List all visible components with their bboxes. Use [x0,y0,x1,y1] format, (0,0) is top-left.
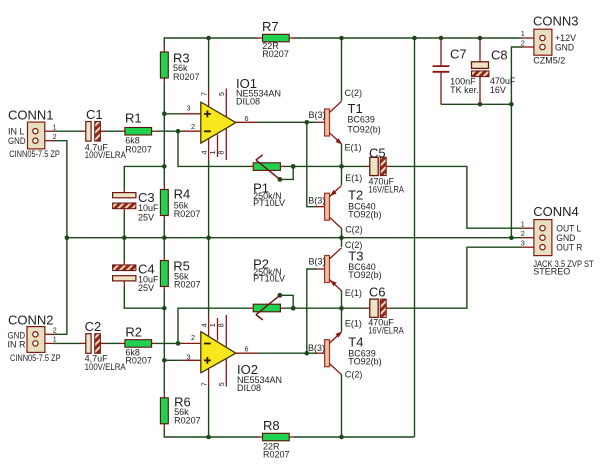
svg-text:2: 2 [53,132,57,141]
svg-text:16V: 16V [490,85,506,95]
svg-text:PT10LV: PT10LV [253,274,285,284]
resistor R7 [257,34,294,42]
svg-text:10uF: 10uF [138,203,159,213]
svg-text:T1: T1 [348,101,363,116]
svg-text:TO92(b): TO92(b) [348,270,381,280]
svg-text:CINN05-7.5 ZP: CINN05-7.5 ZP [9,149,60,159]
wire bottom +12V rail right segment [294,436,415,438]
value label T2 [308,173,381,234]
transistor T1 [316,101,342,144]
svg-text:STEREO: STEREO [533,267,570,277]
node top rail junctions [206,36,482,41]
svg-text:2: 2 [521,38,525,47]
node C7 C8 ground junctions [478,102,514,107]
node label CONN1 texts [8,108,60,160]
wire IO1 output to base node [257,121,307,123]
svg-text:R0207: R0207 [125,356,152,366]
svg-text:C7: C7 [450,47,467,62]
transistor T4 [316,331,342,374]
capacitor C2 polarized [81,334,105,354]
svg-text:1: 1 [53,335,57,344]
capacitor C7 ceramic [433,38,450,105]
value label R4 [174,187,201,219]
node label CONN2 texts [8,313,61,364]
svg-text:B(3): B(3) [309,110,326,120]
potentiometer P1 [249,155,285,180]
wire P1 right to C5 emitter row [284,165,366,167]
capacitor C1 polarized [81,122,105,142]
wire C6 to CONN4 OUT R [391,247,523,308]
resistor R5 [160,255,168,291]
node mid rail junctions [65,235,514,240]
svg-text:25V: 25V [138,283,154,293]
svg-text:4: 4 [200,151,209,155]
svg-text:GND: GND [556,233,575,243]
wire T1 collector to rail [341,38,343,101]
wire T4 emitter up [341,308,343,331]
potentiometer P2 [249,295,285,320]
svg-text:CONN1: CONN1 [8,108,54,123]
wire base node T1-T2 vertical [307,122,317,206]
svg-text:R0207: R0207 [125,144,152,154]
wire C4 bottom to bias row [124,285,164,308]
node label CONN3 texts [521,14,579,66]
svg-text:E(1): E(1) [345,142,362,152]
resistor R3 [160,46,168,84]
svg-text:C(2): C(2) [345,225,363,235]
svg-text:4: 4 [200,323,209,327]
svg-text:CZM5/2: CZM5/2 [533,55,565,65]
resistor R4 [160,184,168,220]
node bias chain junctions [162,112,167,363]
svg-text:1: 1 [521,29,525,38]
svg-text:CONN2: CONN2 [8,313,54,328]
svg-text:B(3): B(3) [308,196,325,206]
wire C7-C8 ground bar [441,103,511,105]
svg-text:8: 8 [217,151,226,155]
svg-text:3: 3 [521,238,525,247]
wire T3 collector to mid rail [341,238,343,247]
svg-text:T3: T3 [348,248,363,263]
value label R8 [263,418,290,460]
wire T4 collector to bottom rail [341,375,343,438]
wire R1 to IO1 pin2 [156,130,182,132]
wire base node to T4 [307,352,317,354]
svg-text:IN R: IN R [8,339,27,349]
svg-text:IN L: IN L [8,127,25,137]
node base junctions [305,120,310,356]
wire R3-R4 bias chain vertical [163,83,165,185]
wire CONN2 pin1 to C2 [54,342,82,344]
svg-text:1: 1 [521,219,525,228]
wire C4 top to mid rail [123,238,125,261]
capacitor C6 polarized [366,299,392,317]
wire IO2 pins 4-1-8 ground rise [208,238,210,316]
connector CONN2 [27,327,54,353]
wire base node to T1 [307,121,317,123]
svg-text:E(1): E(1) [345,319,362,329]
svg-text:1: 1 [53,122,57,131]
wire IO1 pin7 to top rail [208,38,210,89]
svg-text:2: 2 [53,325,57,334]
svg-text:6: 6 [245,114,249,123]
wire +12V top rail left segment [164,38,257,46]
wire bottom +12V rail left segment [164,429,257,437]
wire R5-R6 chain vertical [163,291,165,393]
node emitter row junctions [278,164,344,311]
node bottom rail junctions [206,435,344,440]
svg-text:TO92(b): TO92(b) [347,125,380,135]
op-amp IO1 [182,89,258,161]
capacitor C5 polarized [366,157,392,175]
capacitor C4 polarized [113,260,136,285]
svg-text:C(2): C(2) [345,240,363,250]
wire IO2 output to base node [257,352,307,354]
value label C2 [85,319,126,372]
wire IO1 pin3 input [164,113,182,115]
value label T1 [309,88,381,152]
wire R2 to IO2 pin2 [156,342,182,344]
resistor R2 [120,340,157,348]
connector CONN1 [28,122,55,149]
svg-text:R0207: R0207 [173,72,200,82]
svg-text:B(3): B(3) [309,256,326,266]
resistor R8 [257,433,294,441]
svg-text:TK ker.: TK ker. [450,85,479,95]
value label C4 [138,262,159,294]
capacitor C3 polarized [113,188,136,213]
svg-text:DIL08: DIL08 [236,97,260,107]
wire C2 to R2 [105,342,120,344]
value label IO1 [236,76,281,107]
wire R4 bottom to mid rail [163,220,165,238]
wire C5 to CONN4 OUT L [391,166,523,228]
wire bias node to C3 [124,166,164,188]
value label IO2 [237,362,282,393]
svg-text:R0207: R0207 [262,49,289,59]
op-amp IO2 [182,315,258,387]
svg-text:R0207: R0207 [263,449,290,459]
svg-text:C2: C2 [85,319,102,334]
svg-text:BC639: BC639 [347,115,375,125]
wire C3 bottom to mid rail [123,213,125,238]
connector CONN3 [522,29,552,55]
wire CONN3 pin2 GND down [511,47,522,104]
svg-text:C(2): C(2) [345,88,363,98]
svg-text:C8: C8 [491,48,508,63]
svg-text:C(2): C(2) [345,369,363,379]
svg-text:GND: GND [555,42,574,52]
value label R7 [262,19,289,59]
wire CONN1 pin2 ground drop [54,141,67,335]
value label T3 [309,240,382,298]
svg-text:5: 5 [217,382,226,386]
node label CONN4 texts [521,204,594,277]
value label R2 [125,324,152,365]
wire IO2 feedback node up to P2 row [178,308,249,343]
value label C6 [368,285,404,336]
svg-text:7: 7 [200,382,209,386]
svg-text:16V/ELRA: 16V/ELRA [368,325,404,335]
svg-text:3: 3 [187,103,191,112]
wire T2 collector to mid rail [341,229,343,238]
wire P2 right to C6 emitter row [284,307,366,309]
svg-text:OUT L: OUT L [556,223,581,233]
svg-text:C6: C6 [369,285,386,300]
value label R1 [125,111,152,155]
svg-text:T2: T2 [348,187,363,202]
connector CONN4 [522,220,552,256]
wire T2 emitter up [341,166,343,185]
wire P1 wiper hook [280,166,293,179]
wire +12V top rail right segment [294,37,522,39]
svg-text:CONN4: CONN4 [533,204,579,219]
value label R6 [174,394,201,425]
wire R5 top to mid rail [163,238,165,256]
svg-text:25V: 25V [138,213,154,223]
wire GND vertical to mid rail [510,104,512,237]
wire IO2 pin7 to bottom rail [208,386,210,437]
svg-text:2: 2 [191,333,195,342]
value label C5 [369,146,405,195]
value label C3 [138,190,159,223]
wire base node T3-T4 vertical [307,269,317,353]
wire T1 emitter down [341,144,343,166]
svg-text:R0207: R0207 [174,209,201,219]
svg-text:R8: R8 [263,418,280,433]
svg-text:5: 5 [217,92,226,96]
svg-text:E(1): E(1) [345,288,362,298]
svg-text:100V/ELRA: 100V/ELRA [85,150,126,160]
wire IO1 feedback node down to P1 row [178,131,249,166]
resistor R1 [120,128,157,136]
svg-text:TO92(b): TO92(b) [348,209,381,219]
wire T3 emitter down [341,291,343,309]
svg-text:R2: R2 [125,324,142,339]
wire IO1 pins 4-1-8 ground drop [208,160,210,238]
svg-text:16V/ELRA: 16V/ELRA [369,185,405,195]
value label P2 [253,256,285,283]
value label R3 [173,50,200,82]
svg-text:GND: GND [8,136,26,146]
value label P1 [253,180,285,208]
value label C7 [450,47,479,96]
wire IO2 pin3 input [164,359,182,361]
svg-text:6: 6 [245,344,249,353]
svg-text:2: 2 [521,229,525,238]
pin number IO2 texts [187,323,249,386]
wire C1 to R1 [105,130,120,132]
wire CONN1 pin1 to C1 [54,130,82,132]
node feedback junctions [176,129,181,346]
pin number IO1 texts [187,92,249,155]
svg-text:3: 3 [187,353,191,362]
svg-text:E(1): E(1) [345,173,362,183]
svg-text:2: 2 [191,122,195,131]
svg-text:PT10LV: PT10LV [253,198,285,208]
resistor R6 [160,393,168,430]
value label T4 [308,319,382,380]
wire rail-to-rail vertical [414,38,416,437]
svg-text:CONN3: CONN3 [533,14,579,29]
svg-text:DIL08: DIL08 [237,383,261,393]
svg-text:R7: R7 [262,19,279,34]
svg-text:C5: C5 [369,146,386,161]
svg-text:7: 7 [200,92,209,96]
transistor T3 [316,248,342,291]
svg-text:R0207: R0207 [174,416,201,426]
svg-text:T4: T4 [348,334,363,349]
value label R5 [173,258,200,289]
wire P2 wiper hook [280,295,293,308]
value label C8 [490,48,516,95]
transistor T2 [316,186,342,229]
value label C1 [85,107,126,160]
svg-text:8: 8 [217,323,226,327]
svg-text:100V/ELRA: 100V/ELRA [85,362,126,372]
svg-text:R0207: R0207 [174,280,201,290]
svg-text:R1: R1 [125,111,142,126]
svg-text:C1: C1 [86,107,103,122]
svg-text:TO92(b): TO92(b) [348,356,381,366]
capacitor C8 polarized [472,38,490,105]
svg-text:B(3): B(3) [308,343,325,353]
svg-text:OUT R: OUT R [556,242,582,252]
svg-text:CINN05-7.5 ZP: CINN05-7.5 ZP [10,353,61,363]
wire mid GND rail [67,237,522,239]
